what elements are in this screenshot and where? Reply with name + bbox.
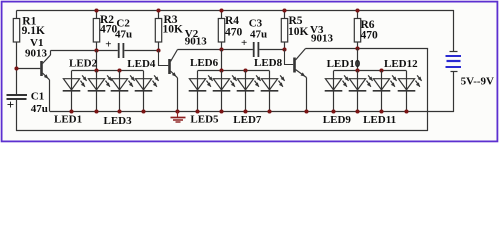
wire LED rail group1 <box>72 70 144 72</box>
wire battery bottom lead <box>453 72 455 113</box>
ground symbol <box>177 112 179 118</box>
wire V1 collector to C2 <box>51 50 118 52</box>
wire V2 base L <box>159 51 169 66</box>
svg-text:47u: 47u <box>31 103 48 115</box>
junction dot node B3 <box>355 46 359 50</box>
LED LED9 <box>333 71 335 111</box>
LED LED8 <box>269 71 271 111</box>
border frame <box>2 2 498 142</box>
svg-text:+: + <box>7 97 14 112</box>
junction dot node B2 <box>219 47 223 51</box>
junction dot V3 emitter <box>304 109 308 113</box>
svg-text:C1: C1 <box>31 90 44 102</box>
resistor R2 <box>96 11 98 19</box>
svg-text:9013: 9013 <box>311 33 334 45</box>
LED LED10 <box>357 71 359 111</box>
wire top +V rail <box>17 10 454 12</box>
wire battery top lead <box>453 10 455 52</box>
wire bottom feedback <box>16 130 428 132</box>
capacitor C3 <box>253 42 255 57</box>
LED LED7 <box>245 71 247 111</box>
junction dot LED11 cathode <box>379 109 383 113</box>
svg-text:+: + <box>241 37 247 49</box>
wire LED rail group3 <box>334 70 407 72</box>
junction dot LED12 cathode <box>404 109 408 113</box>
capacitor C1 <box>7 94 28 96</box>
resistor R5 <box>284 11 286 19</box>
junction dot G3 rail a <box>355 68 359 72</box>
wire V1 emitter <box>49 80 51 112</box>
junction dot G1 rail b <box>117 68 121 72</box>
LED LED1 <box>71 71 73 111</box>
junction dot LED2 cathode <box>94 109 98 113</box>
LED LED11 <box>381 71 383 111</box>
svg-text:LED3: LED3 <box>104 115 133 127</box>
svg-text:LED11: LED11 <box>363 114 396 126</box>
wire R2 node to LED rail <box>96 51 98 71</box>
svg-text:LED8: LED8 <box>254 57 283 69</box>
junction dot LED5 cathode <box>195 109 199 113</box>
svg-text:LED10: LED10 <box>327 58 361 70</box>
wire LED rail group2 <box>198 70 270 72</box>
battery B1 <box>450 51 458 53</box>
resistor R1 <box>16 11 18 19</box>
junction dot LED3 cathode <box>117 109 121 113</box>
wire V3 base L <box>285 50 294 65</box>
LED LED2 <box>96 71 98 111</box>
wire R6 node to LED rail <box>357 49 359 71</box>
transistor V2 <box>168 59 171 74</box>
junction dot R6 top <box>355 8 359 12</box>
svg-text:LED2: LED2 <box>69 58 98 70</box>
svg-text:9013: 9013 <box>185 35 208 47</box>
svg-text:470: 470 <box>225 26 243 38</box>
svg-text:LED1: LED1 <box>54 113 82 125</box>
svg-text:LED12: LED12 <box>384 58 418 70</box>
junction dot LED9 cathode <box>331 109 335 113</box>
svg-text:9013: 9013 <box>25 47 48 59</box>
junction dot R2 top <box>94 8 98 12</box>
junction dot R5 top <box>282 8 286 12</box>
junction dot R3 top <box>156 8 160 12</box>
wire ground rail <box>50 111 454 113</box>
svg-text:10K: 10K <box>163 23 184 35</box>
LED LED6 <box>221 71 223 111</box>
svg-text:5V--9V: 5V--9V <box>461 75 494 87</box>
resistor R6 <box>357 11 359 19</box>
svg-text:R4: R4 <box>225 15 239 27</box>
LED LED5 <box>197 71 199 111</box>
wire V2 collector to C3 <box>178 49 253 51</box>
capacitor C2 <box>118 43 120 58</box>
wire R4 node to LED rail <box>221 50 223 71</box>
transistor V1 <box>40 61 43 76</box>
junction dot V1 base node <box>14 66 18 70</box>
svg-text:LED9: LED9 <box>323 114 352 126</box>
wire V2 emitter <box>177 78 179 112</box>
wire left rail lower <box>16 100 18 131</box>
wire V3 emitter <box>306 78 308 112</box>
junction dot LED1 cathode <box>69 109 73 113</box>
svg-text:LED4: LED4 <box>127 58 156 70</box>
resistor R3 <box>158 11 160 19</box>
junction dot LED8 cathode <box>267 109 271 113</box>
LED LED4 <box>143 71 145 111</box>
svg-text:47u: 47u <box>115 28 132 40</box>
svg-text:10K: 10K <box>288 26 309 38</box>
transistor V3 <box>293 58 296 73</box>
junction dot node C3R5 <box>282 47 286 51</box>
svg-text:+: + <box>105 38 111 50</box>
junction dot V2 emitter <box>175 109 179 113</box>
svg-text:LED5: LED5 <box>190 113 219 125</box>
svg-text:LED7: LED7 <box>233 114 262 126</box>
svg-text:470: 470 <box>361 29 379 41</box>
LED LED3 <box>119 71 121 111</box>
junction dot G2 rail a <box>219 68 223 72</box>
junction dot G1 rail a <box>94 68 98 72</box>
junction dot G3 rail b <box>379 68 383 72</box>
svg-text:47u: 47u <box>250 28 267 40</box>
wire C3 to R5 node <box>259 49 284 51</box>
svg-text:LED6: LED6 <box>190 57 219 69</box>
wire feedback vertical <box>427 49 429 132</box>
wire C2 to R3 node <box>124 50 158 52</box>
resistor R4 <box>221 11 223 19</box>
wire left rail upper <box>16 42 18 94</box>
junction dot LED10 cathode <box>355 109 359 113</box>
junction dot LED7 cathode <box>243 109 247 113</box>
wire V3 collector feedback <box>306 48 429 50</box>
svg-text:9.1K: 9.1K <box>22 25 45 37</box>
wire V1 base <box>17 68 41 70</box>
LED LED12 <box>406 71 408 111</box>
junction dot node C2R3 <box>156 48 160 52</box>
junction dot node B1 <box>94 48 98 52</box>
junction dot LED6 cathode <box>219 109 223 113</box>
junction dot G2 rail b <box>243 68 247 72</box>
junction dot LED4 cathode <box>141 109 145 113</box>
junction dot R4 top <box>219 8 223 12</box>
